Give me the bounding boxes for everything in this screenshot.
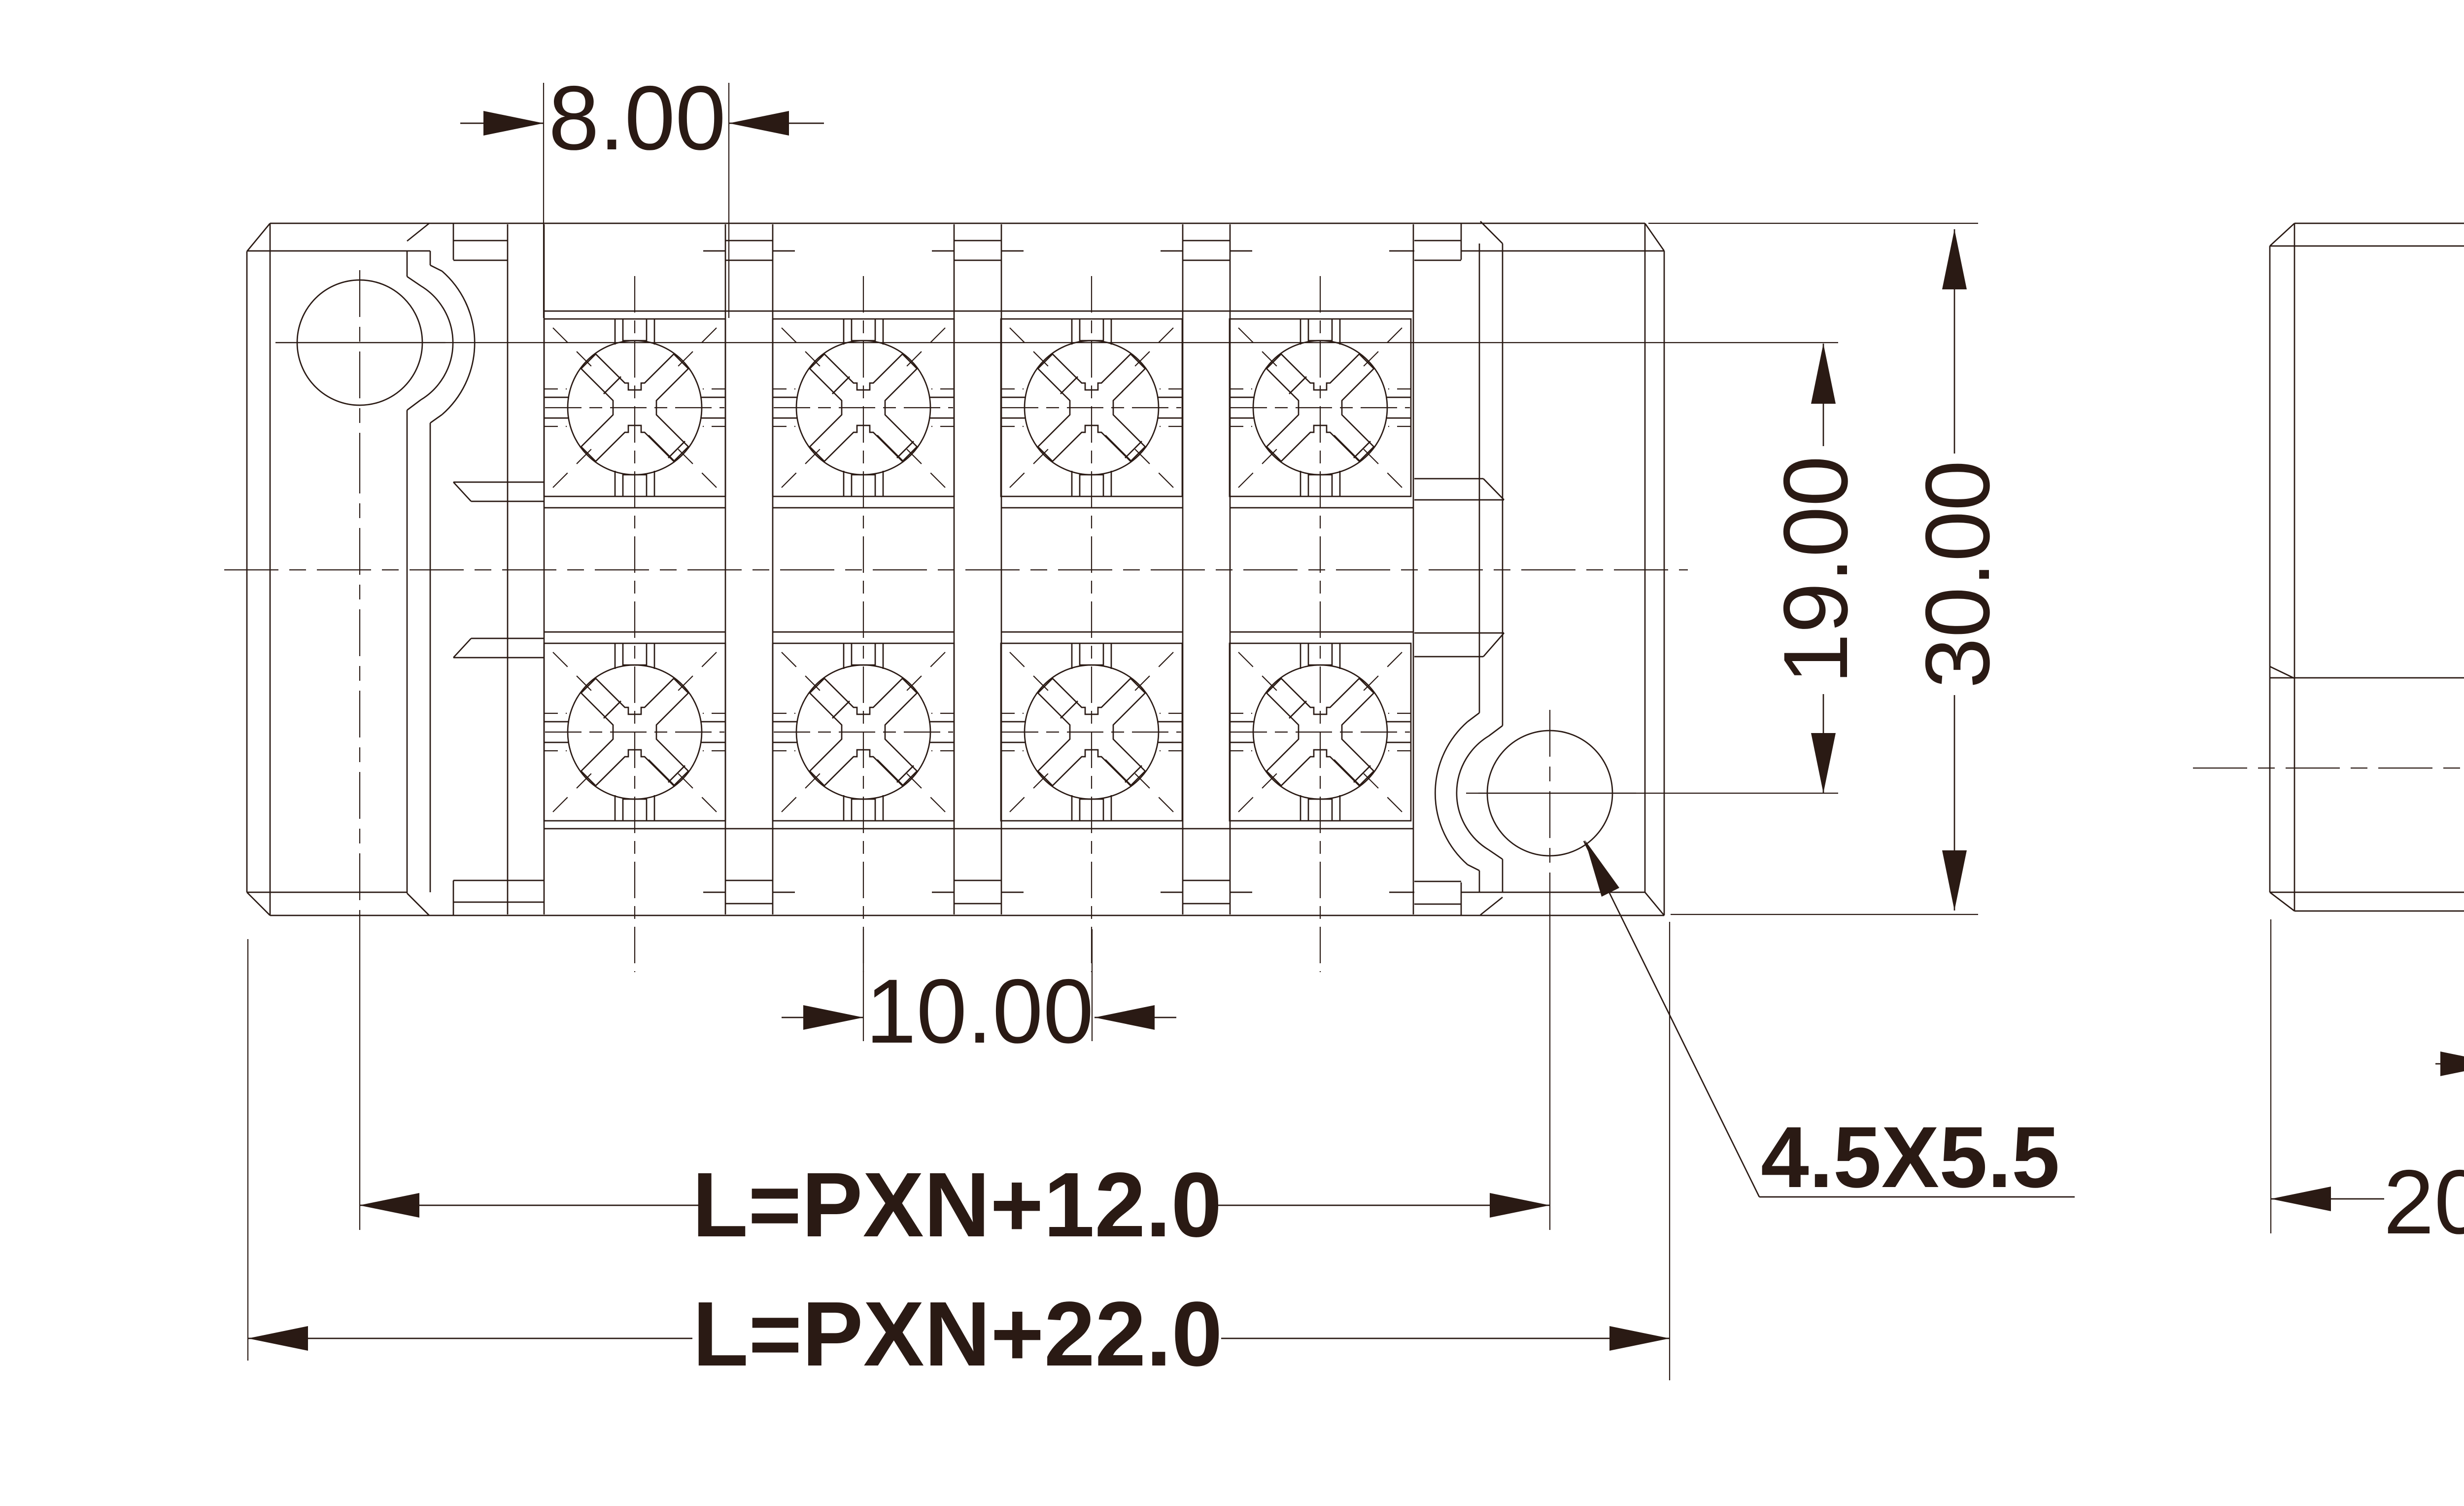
dim 19.00: [275, 343, 1867, 793]
screw-boss slot left: [407, 251, 408, 277]
boss arc inner: [421, 286, 453, 400]
hole centerlines: [275, 342, 445, 343]
svg-text:10.00: 10.00: [866, 961, 1094, 1062]
svg-text:4.5X5.5: 4.5X5.5: [1761, 1109, 2060, 1206]
dim L=PXN+22.0: [248, 922, 1670, 1385]
dim L=PXN+12.0: [359, 447, 1550, 1256]
screw terminal S5: [544, 643, 725, 821]
svg-text:20.00: 20.00: [2384, 1152, 2464, 1253]
screw terminal S3: [1001, 319, 1182, 496]
leader 4.5X5.5: [1584, 840, 2075, 1206]
pole centrelines: [634, 276, 635, 972]
terminal section edges: [544, 311, 1413, 829]
svg-text:30.00: 30.00: [1907, 460, 2009, 689]
side view left section: [2193, 223, 2464, 911]
left end notches: [453, 223, 544, 916]
part centreline: [224, 569, 1688, 570]
boss arc inner right: [1457, 736, 1489, 850]
terminal block body outline (top view): [247, 223, 1664, 915]
svg-text:L=PXN+22.0: L=PXN+22.0: [692, 1283, 1222, 1385]
svg-text:8.00: 8.00: [548, 68, 726, 169]
dim 30.00: [1648, 223, 2009, 914]
barrier divider walls: [508, 224, 1413, 914]
screw terminal S8: [1230, 643, 1411, 821]
inter-pole gap ledges top/bottom: [725, 241, 1230, 904]
dim 8.00: [460, 68, 824, 318]
svg-text:L=PXN+12.0: L=PXN+12.0: [692, 1154, 1222, 1256]
boss arc outer: [442, 271, 475, 415]
dim 20.00: [2271, 919, 2464, 1253]
screw terminal S2: [773, 319, 954, 496]
screw terminal S7: [1001, 643, 1182, 821]
screw-boss slot right: [1502, 244, 1504, 726]
screw terminal S6: [773, 643, 954, 821]
dim 10.00 pitch: [782, 929, 1176, 1062]
hole centerlines: [1466, 793, 1636, 794]
mounting hole top-left: [297, 280, 422, 405]
screw terminal S1: [544, 319, 725, 496]
screw terminal S4: [1230, 319, 1411, 496]
mounting hole bottom-right: [1487, 731, 1612, 856]
svg-text:19.00: 19.00: [1765, 456, 1867, 684]
right end notches: [1414, 223, 1504, 916]
dim 10.00 side: [2435, 919, 2464, 1233]
boss arc outer right: [1435, 722, 1468, 865]
